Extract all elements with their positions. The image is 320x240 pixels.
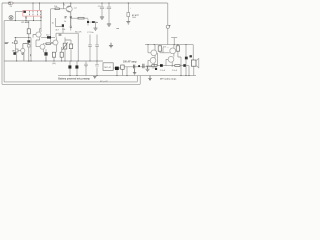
svg-text:IC1 4558: IC1 4558 (22, 21, 30, 24)
svg-text:(4k): (4k) (52, 63, 56, 65)
svg-text:2.2uF: 2.2uF (160, 70, 166, 72)
svg-text:Battery powered mic preamp: Battery powered mic preamp (58, 78, 90, 81)
svg-text:out: out (74, 6, 77, 9)
svg-text:DIY audio amps: DIY audio amps (160, 79, 177, 81)
svg-text:100k: 100k (132, 17, 136, 19)
svg-text:1M: 1M (12, 50, 15, 52)
svg-text:MIC-01: MIC-01 (104, 67, 112, 69)
svg-text:1W AF amp: 1W AF amp (123, 61, 137, 64)
svg-text:2.2uF: 2.2uF (172, 70, 178, 72)
svg-text:SC p.47: SC p.47 (100, 81, 108, 83)
svg-text:R5 47k: R5 47k (75, 31, 83, 33)
svg-text:220R: 220R (152, 68, 157, 70)
svg-text:C7 10u: C7 10u (87, 32, 95, 34)
